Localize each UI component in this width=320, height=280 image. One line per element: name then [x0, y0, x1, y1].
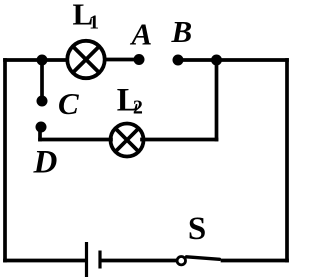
svg-text:L1: L1	[73, 0, 99, 34]
wire L2 left segment	[40, 138, 111, 142]
battery short plate (negative)	[98, 251, 101, 269]
svg-text:C: C	[58, 86, 79, 121]
wire battery to switch	[102, 259, 177, 263]
svg-text:L2: L2	[117, 83, 143, 119]
switch S blade	[187, 257, 220, 260]
svg-text:D: D	[33, 145, 58, 181]
wire top-left horizontal	[5, 58, 66, 62]
wire switch to bottom-right corner	[223, 259, 288, 263]
node B	[173, 55, 184, 66]
wire bottom-left horizontal	[5, 259, 85, 263]
node junction right of B	[211, 55, 222, 66]
battery long plate (positive)	[85, 242, 88, 277]
wire node B to top-right corner	[178, 58, 287, 62]
wire junction drop to L2 row	[215, 60, 219, 140]
wire L2 right segment	[142, 138, 217, 142]
lamp L2	[111, 124, 144, 157]
wire right vertical	[285, 60, 289, 261]
lamp L1	[67, 41, 104, 78]
wire stub D to L2 row	[38, 128, 42, 140]
svg-text:S: S	[188, 211, 206, 247]
switch S pivot circle	[177, 257, 185, 265]
wire left vertical	[3, 60, 7, 261]
wire node to C	[40, 60, 44, 101]
wire L1 to node A	[105, 58, 139, 62]
node junction at top-left of lamp L1	[37, 55, 48, 66]
node A	[134, 54, 145, 65]
svg-text:A: A	[130, 17, 153, 52]
node D	[36, 122, 47, 133]
node C	[37, 96, 48, 107]
svg-text:B: B	[171, 14, 193, 49]
